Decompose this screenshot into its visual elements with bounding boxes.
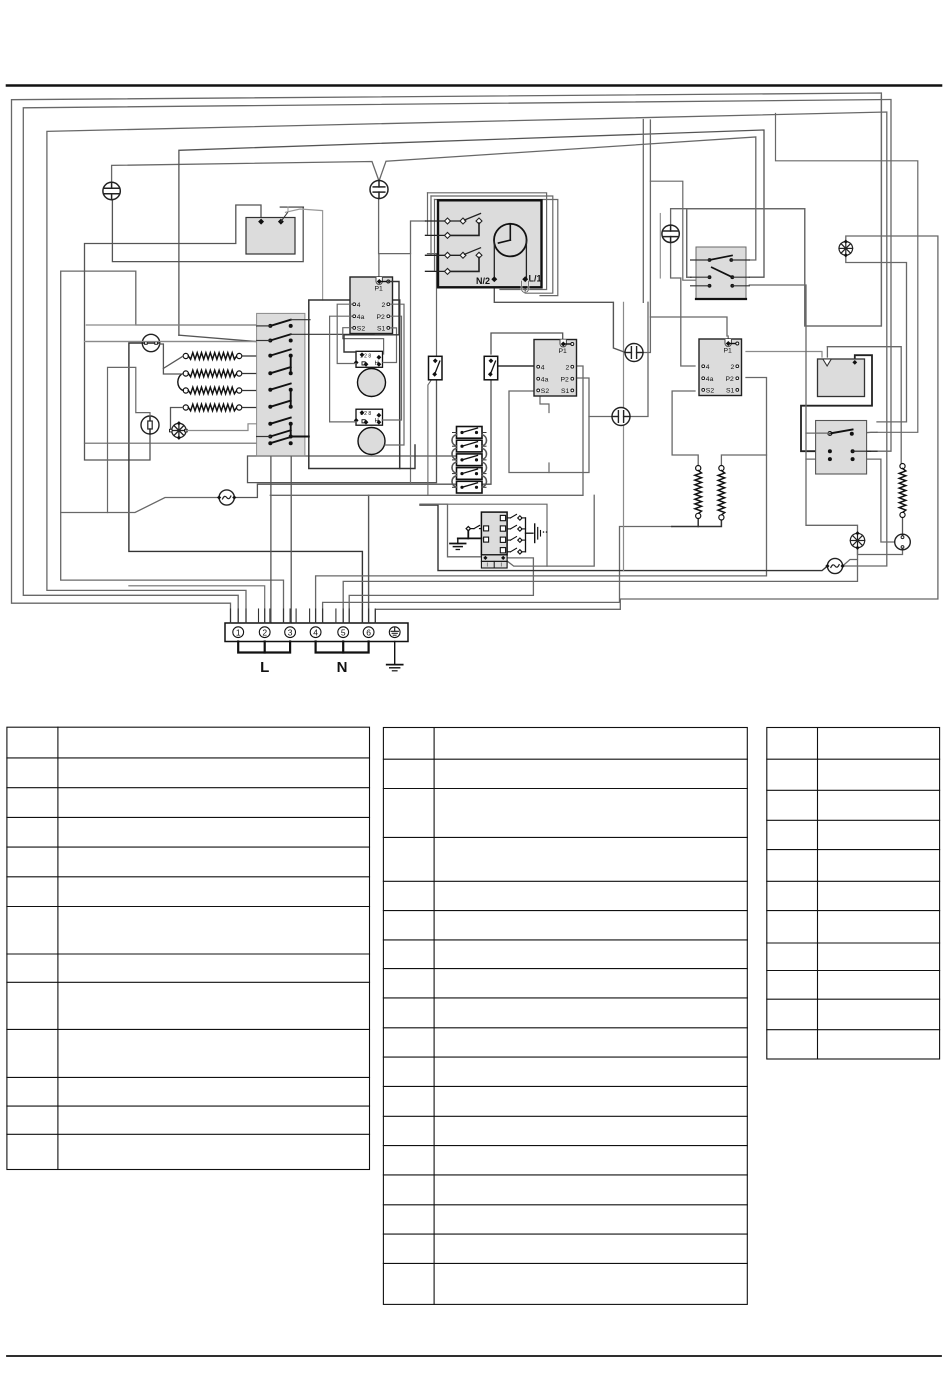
wire bbox=[316, 378, 767, 623]
lamp E2 oven lamp bbox=[370, 181, 388, 199]
wire bbox=[630, 302, 648, 416]
wire bbox=[855, 459, 895, 542]
wire bbox=[846, 255, 907, 422]
resistor grill element left bbox=[695, 466, 702, 519]
svg-text:S1: S1 bbox=[377, 326, 386, 333]
svg-text:P2: P2 bbox=[377, 314, 386, 321]
svg-text:N: N bbox=[337, 659, 348, 676]
svg-text:S2: S2 bbox=[357, 326, 366, 333]
svg-text:2: 2 bbox=[731, 364, 735, 371]
svg-text:4: 4 bbox=[313, 627, 318, 637]
resistor R4 hotplate element bbox=[183, 404, 270, 411]
svg-text:4a: 4a bbox=[357, 314, 365, 321]
lamp E3 indicator lamp bbox=[662, 225, 679, 242]
mains terminal block bbox=[225, 623, 408, 642]
svg-text:P2: P2 bbox=[561, 376, 570, 383]
wire bbox=[749, 285, 857, 533]
wire bbox=[672, 391, 698, 466]
wire bbox=[671, 209, 687, 226]
wire bbox=[270, 444, 272, 622]
wire bbox=[160, 344, 184, 374]
svg-text:I: I bbox=[501, 563, 502, 569]
wire bbox=[343, 548, 857, 622]
lamp H2 thermostat lamp bbox=[825, 558, 844, 573]
wire bbox=[697, 518, 699, 527]
wire bbox=[379, 137, 756, 260]
wire bbox=[428, 193, 547, 290]
limit switch 3 bbox=[453, 454, 487, 466]
svg-text:4: 4 bbox=[357, 302, 361, 309]
lamp E5 indicator bbox=[612, 408, 630, 426]
wire bbox=[179, 335, 256, 341]
wire bbox=[171, 408, 184, 431]
energy regulator P1 rear bbox=[534, 340, 577, 397]
wire bbox=[248, 378, 457, 483]
svg-text:4a: 4a bbox=[706, 376, 714, 383]
limit switch 4 bbox=[453, 468, 487, 480]
timer contact 1 bbox=[426, 214, 482, 236]
legend table left bbox=[7, 727, 370, 1169]
timer contact 4 pin bbox=[426, 268, 451, 274]
limit switch 5 bbox=[453, 481, 487, 493]
fan motor M4 bbox=[850, 531, 864, 550]
svg-text:6: 6 bbox=[366, 627, 371, 637]
wire bbox=[671, 242, 695, 366]
timer contact 2 pin bbox=[426, 232, 451, 238]
wire bbox=[343, 328, 384, 354]
svg-text:L: L bbox=[260, 659, 269, 676]
wire bbox=[309, 300, 400, 469]
oven thermostat TH3 bbox=[818, 359, 865, 397]
wire bbox=[349, 558, 533, 622]
wire bbox=[112, 200, 303, 262]
wire bbox=[650, 181, 709, 280]
motor M1 bbox=[358, 369, 386, 397]
L phase bracket bbox=[238, 642, 290, 653]
wire bbox=[623, 302, 625, 570]
wire bbox=[234, 379, 491, 498]
wire bbox=[61, 498, 220, 513]
wire bbox=[902, 516, 904, 533]
wire bbox=[776, 114, 918, 433]
programmer left contact and ground bbox=[458, 526, 482, 544]
terminal earth bbox=[389, 627, 400, 638]
svg-text:4: 4 bbox=[706, 364, 710, 371]
timer contact 3 bbox=[426, 248, 482, 272]
svg-text:S1: S1 bbox=[561, 388, 570, 395]
wire bbox=[643, 120, 651, 353]
wire bbox=[435, 200, 558, 296]
wire bbox=[178, 374, 183, 391]
svg-text:L/1: L/1 bbox=[529, 274, 542, 284]
wire bbox=[382, 316, 401, 420]
lamp E6 thermostat lamp bbox=[895, 534, 911, 550]
lamp E4 indicator bbox=[625, 344, 643, 362]
timer / programmer clock bbox=[438, 200, 542, 287]
wire bbox=[108, 367, 151, 512]
timer pin N/2 bbox=[476, 276, 497, 286]
wire bbox=[375, 236, 938, 622]
svg-text:P2: P2 bbox=[726, 376, 735, 383]
wire bbox=[61, 271, 284, 622]
timer pin L/1 bbox=[522, 274, 542, 293]
wire bbox=[410, 254, 412, 483]
legend table right bbox=[767, 728, 940, 1060]
svg-text:P1: P1 bbox=[559, 348, 568, 355]
svg-text:1: 1 bbox=[236, 627, 241, 637]
wire bbox=[420, 504, 481, 557]
svg-text:4: 4 bbox=[541, 364, 545, 371]
wire bbox=[827, 347, 901, 466]
wire bbox=[721, 455, 766, 466]
wire bbox=[85, 205, 262, 460]
ground bbox=[387, 642, 403, 671]
wire bbox=[650, 317, 727, 336]
wire bbox=[426, 200, 435, 272]
selector switch S1 bbox=[257, 313, 375, 455]
ground bbox=[450, 544, 466, 550]
wire bbox=[843, 560, 858, 567]
heater connector H2 bbox=[354, 409, 383, 425]
wire bbox=[344, 282, 399, 353]
wire bbox=[826, 347, 828, 357]
svg-text:N/2: N/2 bbox=[476, 276, 490, 286]
svg-text:I: I bbox=[487, 563, 488, 569]
wire bbox=[498, 365, 534, 367]
wire bbox=[290, 444, 292, 622]
svg-text:2: 2 bbox=[262, 627, 267, 637]
wire bbox=[589, 416, 612, 418]
resistor R2 hotplate element bbox=[183, 370, 270, 377]
wire bbox=[378, 254, 380, 281]
svg-text:S2: S2 bbox=[706, 388, 715, 395]
limit switch 1 bbox=[453, 427, 487, 439]
energy regulator P1 front-right bbox=[699, 339, 742, 396]
thermostat TH2 bbox=[141, 416, 159, 434]
terminal wire stubs bbox=[231, 609, 376, 623]
wire bbox=[855, 450, 871, 452]
wire bbox=[801, 355, 872, 451]
wire bbox=[85, 442, 271, 444]
svg-text:2: 2 bbox=[566, 364, 570, 371]
wire bbox=[448, 504, 548, 566]
heater connector H1 bbox=[354, 351, 383, 367]
minute minder programmer bbox=[481, 512, 507, 568]
wire bbox=[431, 196, 553, 293]
limit switch 2 bbox=[453, 440, 487, 452]
wire bbox=[323, 527, 672, 623]
resistor grill element right bbox=[718, 466, 725, 521]
motor M2 bbox=[358, 428, 385, 455]
N neutral bracket bbox=[316, 642, 369, 653]
wire bbox=[12, 93, 882, 622]
thermostat TH1 bbox=[142, 334, 159, 351]
wire bbox=[330, 316, 357, 422]
legend table middle bbox=[383, 728, 747, 1305]
fan motor M3 bbox=[839, 239, 853, 257]
oven function switch S3 bbox=[806, 421, 877, 475]
wire bbox=[163, 356, 183, 368]
svg-text:P1: P1 bbox=[375, 286, 384, 293]
programmer contacts bbox=[507, 514, 547, 554]
wire N/2 net bbox=[494, 281, 625, 353]
wire bbox=[426, 196, 432, 255]
wire bbox=[179, 130, 764, 335]
svg-text:3: 3 bbox=[288, 627, 293, 637]
wire bbox=[86, 341, 256, 343]
wire bbox=[659, 214, 661, 279]
wire bbox=[368, 495, 370, 622]
wire bbox=[86, 324, 256, 326]
wire bbox=[746, 352, 822, 358]
svg-text:5: 5 bbox=[341, 627, 346, 637]
lamp E1 oven lamp bbox=[103, 182, 120, 199]
wire bbox=[509, 378, 589, 473]
wire bbox=[806, 458, 830, 460]
svg-text:2: 2 bbox=[382, 302, 386, 309]
wire bbox=[858, 548, 903, 555]
wire bbox=[452, 435, 487, 487]
resistor top heat element bbox=[899, 464, 906, 518]
wire bbox=[383, 328, 397, 363]
wire bbox=[672, 518, 722, 527]
oven selector switch S2 bbox=[691, 247, 750, 299]
wire bbox=[129, 343, 363, 622]
wire bbox=[491, 333, 563, 354]
lamp H1 control lamp bbox=[217, 490, 236, 505]
wire bbox=[852, 432, 877, 434]
wire bbox=[23, 100, 891, 623]
wire bbox=[727, 336, 729, 344]
wire bbox=[503, 495, 594, 566]
cooling fan motor bbox=[170, 421, 188, 440]
wire bbox=[687, 96, 882, 326]
wire bbox=[112, 162, 379, 183]
wire bbox=[548, 463, 550, 473]
wire bbox=[400, 445, 415, 469]
door switch relay bbox=[246, 207, 304, 254]
oven switch contact SW-B bbox=[484, 356, 498, 380]
wire bbox=[85, 341, 271, 343]
wire bbox=[186, 424, 270, 431]
wire bbox=[428, 375, 435, 495]
wire bbox=[540, 397, 549, 413]
wire bbox=[270, 366, 583, 495]
energy regulator P1 front-left bbox=[350, 277, 393, 334]
wire bbox=[642, 120, 644, 303]
svg-text:S2: S2 bbox=[541, 388, 550, 395]
wire bbox=[379, 198, 426, 254]
wire bbox=[524, 281, 526, 293]
wire bbox=[426, 193, 428, 236]
wire bbox=[420, 505, 828, 571]
svg-text:P1: P1 bbox=[724, 348, 733, 355]
wire bbox=[385, 304, 404, 445]
svg-text:4a: 4a bbox=[541, 376, 549, 383]
oven switch contact SW-A bbox=[429, 356, 443, 380]
svg-text:S1: S1 bbox=[726, 388, 735, 395]
resistor R3 hotplate element bbox=[183, 387, 270, 394]
wire bbox=[428, 254, 437, 355]
wire bbox=[47, 112, 887, 622]
resistor R1 hotplate element bbox=[183, 353, 270, 360]
wire bbox=[129, 586, 265, 622]
wire bbox=[286, 209, 323, 300]
wire bbox=[337, 304, 356, 363]
